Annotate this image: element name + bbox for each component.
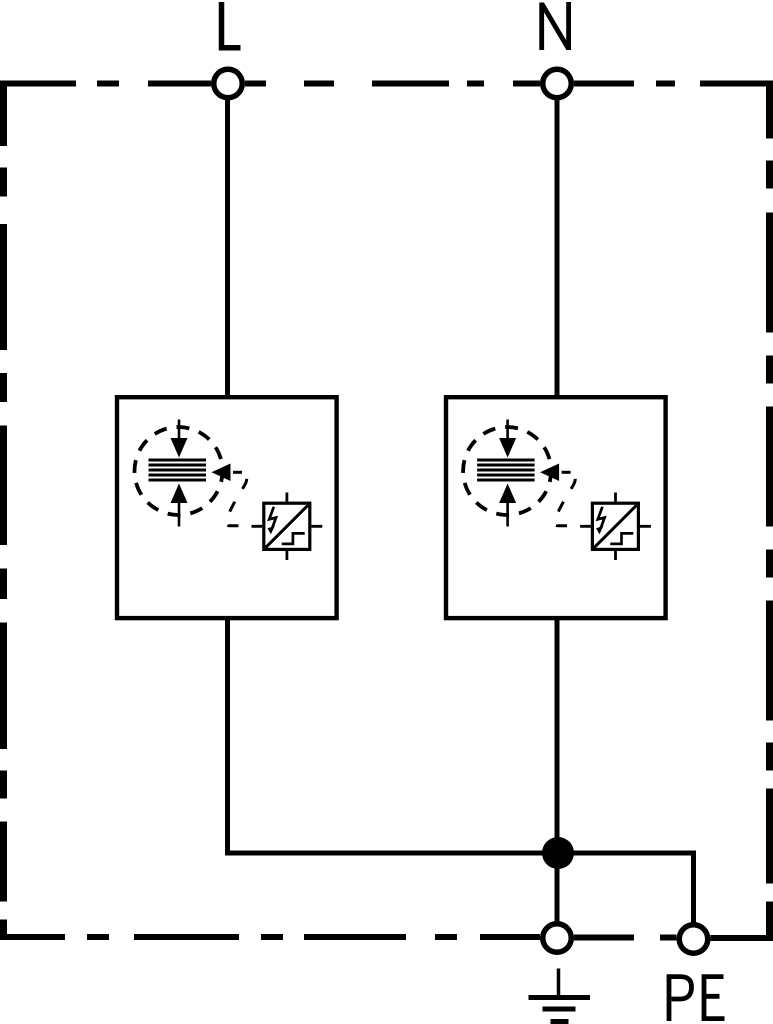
module 2 spark gap: top arrow [506, 420, 509, 441]
module 1 trigger dashed curve [233, 471, 242, 474]
enclosure right border [766, 84, 773, 938]
wire from module 1 down and across to junction [228, 616, 559, 853]
enclosure top border segment between L and N terminals [245, 81, 540, 87]
module 1 trigger box lightning bolt [269, 507, 276, 528]
module 2 trigger tap arrow [540, 464, 559, 482]
SPD module 2 (N arm) [446, 397, 666, 618]
enclosure bottom border segment between ground and PE terminals [574, 935, 677, 941]
terminal L [214, 69, 243, 98]
module 2 spark gap: electrode stack [477, 460, 534, 480]
terminal PE [679, 925, 708, 954]
wire from module 2 down through junction to ground terminal [555, 616, 560, 922]
module 2 trigger box lightning bolt [598, 507, 605, 528]
module 2 trigger dashed curve [562, 471, 571, 474]
enclosure bottom border segment left of ground terminal [0, 934, 540, 940]
wire from junction to PE terminal [558, 853, 694, 923]
terminal to ground (bottom centre) [543, 924, 572, 953]
module 1 spark gap: electrode stack [149, 460, 207, 480]
module 1 enclosure box [117, 397, 337, 618]
label N [542, 2, 569, 50]
module 1 trigger tap arrow [212, 464, 231, 482]
enclosure left border [0, 84, 7, 938]
module 1 spark gap: bottom arrow [178, 502, 181, 527]
enclosure top border segment left of L terminal [0, 81, 211, 87]
module 1 trigger box step waveform [282, 533, 305, 544]
junction node [542, 837, 574, 869]
enclosure top border segment right of N terminal [574, 81, 773, 87]
terminal N [543, 69, 572, 98]
wire from terminal L down to module 1 [225, 98, 230, 400]
module 2 trigger box step waveform [610, 533, 633, 544]
module 2 spark gap: dashed circle [463, 427, 551, 515]
label L [222, 2, 241, 48]
module 2 enclosure box [446, 397, 666, 618]
module 1 trigger box diagonal [265, 505, 309, 549]
module 2 trigger box stubs [580, 493, 651, 561]
enclosure bottom border segment right of PE terminal [711, 935, 773, 941]
module 2 spark gap: bottom arrow [506, 502, 509, 527]
module 2 trigger box diagonal [594, 505, 638, 549]
module 2 trigger circuit box [592, 503, 638, 549]
SPD module 1 (L arm) [117, 397, 337, 618]
module 1 spark gap: dashed circle [135, 427, 223, 515]
ground symbol [529, 969, 591, 1022]
wire from terminal N down to module 2 [555, 98, 560, 400]
label PE [669, 977, 725, 1021]
module 1 spark gap: top arrow [178, 420, 181, 441]
module 1 trigger circuit box [264, 503, 310, 549]
module 1 trigger box stubs [252, 493, 323, 561]
